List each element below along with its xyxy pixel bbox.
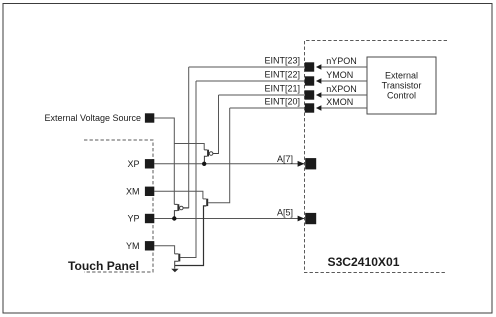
- svg-text:nXPON: nXPON: [326, 84, 357, 94]
- wire YP to A[5]: [154, 218, 304, 220]
- arrow into A[5]: [298, 216, 305, 222]
- wire XM: [154, 191, 203, 199]
- arrow into A[7]: [298, 161, 305, 167]
- pad YP: [145, 214, 154, 223]
- svg-text:External: External: [385, 71, 418, 81]
- svg-text:YMON: YMON: [326, 70, 353, 80]
- node on YP line: [172, 216, 176, 220]
- wire XMON vertical to Q3 gate: [208, 108, 230, 203]
- pad External Voltage Source: [145, 113, 154, 122]
- pad A[5]: [305, 213, 316, 224]
- arrow into EINT[20]: [316, 105, 322, 110]
- svg-text:XP: XP: [127, 159, 139, 169]
- arrow into EINT[22]: [316, 78, 322, 83]
- External Transistor Control box U1: [367, 57, 436, 114]
- pad XM: [145, 187, 154, 196]
- pad EINT[21]: [305, 90, 314, 99]
- transistor Q4 NMOS (YM pull-down): [175, 254, 181, 269]
- svg-text:XM: XM: [126, 187, 140, 197]
- svg-text:Control: Control: [387, 91, 416, 101]
- pad EINT[20]: [305, 103, 314, 112]
- wire External Voltage Source: [154, 118, 174, 204]
- pad A[7]: [305, 158, 316, 169]
- node on XP line: [202, 162, 206, 166]
- wire YM: [154, 246, 174, 254]
- wire EINT[23] row: [189, 66, 367, 68]
- svg-text:Touch Panel: Touch Panel: [68, 259, 139, 273]
- svg-text:nYPON: nYPON: [326, 56, 357, 66]
- svg-text:EINT[20]: EINT[20]: [264, 97, 300, 107]
- wire EVS branch to Q1: [174, 144, 204, 150]
- transistor Q2 PMOS (YP pull-up): [174, 204, 188, 218]
- svg-text:S3C2410X01: S3C2410X01: [328, 255, 400, 269]
- wire nXPON vertical to Q1 gate: [213, 95, 219, 154]
- svg-text:EINT[23]: EINT[23]: [264, 56, 300, 66]
- ground: [171, 269, 178, 273]
- svg-text:A[7]: A[7]: [277, 154, 293, 164]
- pad EINT[22]: [305, 76, 314, 85]
- wire EINT[20] row: [230, 107, 367, 109]
- wire EINT[22] row: [196, 80, 367, 82]
- S3C2410X01 dashed box: [305, 41, 448, 273]
- svg-text:YM: YM: [126, 241, 140, 251]
- arrow into EINT[21]: [316, 92, 322, 97]
- transistor Q3 NMOS (XM pull-down): [175, 199, 209, 266]
- svg-text:YP: YP: [127, 214, 139, 224]
- svg-text:EINT[21]: EINT[21]: [264, 84, 300, 94]
- pad EINT[23]: [305, 62, 314, 71]
- wire YMON vertical to Q4 gate: [180, 81, 196, 258]
- svg-text:A[5]: A[5]: [277, 208, 293, 218]
- svg-text:XMON: XMON: [326, 97, 353, 107]
- wire XP to A[7]: [154, 163, 304, 165]
- pad YM: [145, 241, 154, 250]
- arrow into EINT[23]: [316, 64, 322, 69]
- wire EINT[21] row: [219, 94, 368, 96]
- pad XP: [145, 159, 154, 168]
- svg-text:Transistor: Transistor: [382, 81, 422, 91]
- svg-text:EINT[22]: EINT[22]: [264, 70, 300, 80]
- transistor Q1 PMOS (XP pull-up): [204, 150, 218, 164]
- wire nYPON vertical to Q2 gate: [183, 67, 189, 208]
- Touch Panel dashed box: [84, 140, 153, 272]
- svg-text:External Voltage Source: External Voltage Source: [44, 113, 141, 123]
